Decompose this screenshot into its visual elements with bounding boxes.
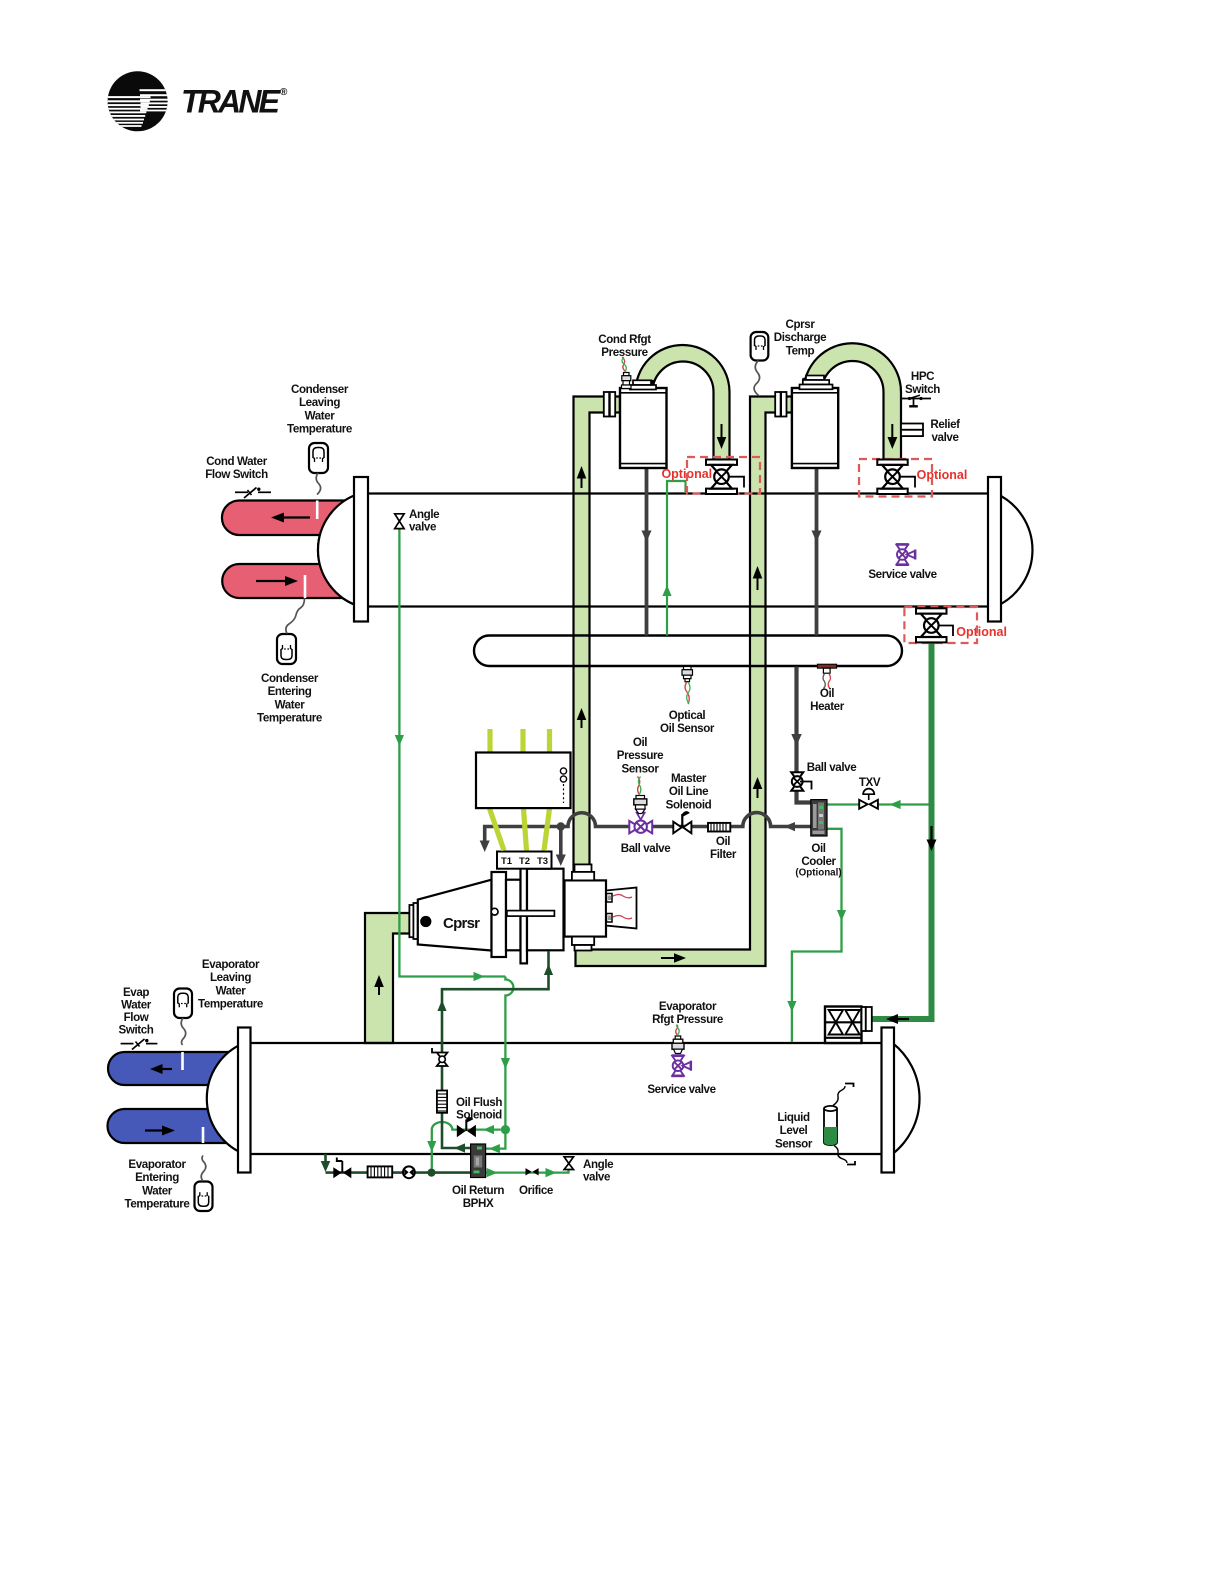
evaporator left tubesheet flange (238, 1028, 251, 1173)
svg-text:T2: T2 (519, 856, 530, 867)
svg-text:MasterOil LineSolenoid: MasterOil LineSolenoid (666, 772, 712, 811)
valve: expansion valve assembly on evaporator (825, 1007, 872, 1044)
wire: green line hop over oil return and down to evaporator (501, 977, 514, 1126)
Trane logo circle (104, 71, 170, 131)
condenser shell fill (318, 494, 1032, 607)
wire: separator 2 oil drain to sump (812, 468, 822, 636)
valve: orifice (526, 1168, 539, 1175)
risers re-crossing sump (green fill over sump, lines over) (574, 636, 766, 667)
svg-text:Cond WaterFlow Switch: Cond WaterFlow Switch (205, 455, 268, 481)
evaporator water pipe leaving (blue, arrow left) (108, 1052, 245, 1085)
sensor: evap entering water temperature icon (flipped) (195, 1156, 213, 1212)
oil separator 2 top plates (800, 376, 833, 390)
svg-text:Ball valve: Ball valve (807, 761, 857, 774)
compressor main body (527, 869, 564, 951)
evaporator shell fill (251, 1043, 920, 1154)
compressor terminal box T1 T2 T3 (497, 852, 552, 869)
switch: HPC pressure switch (901, 395, 931, 406)
svg-text:EvaporatorRfgt Pressure: EvaporatorRfgt Pressure (652, 1000, 724, 1026)
filter: oil filter (708, 823, 730, 832)
filter: strainer on oil return line (368, 1166, 393, 1177)
sensor: condenser leaving water temperature icon (309, 443, 328, 495)
compressor section 2 (506, 880, 521, 951)
arrow up in riser 2 (upper) (753, 566, 763, 590)
compressor cone dot (420, 916, 431, 927)
wire: green dot down into BPHX top (486, 1134, 506, 1153)
svg-text:Service valve: Service valve (647, 1083, 716, 1096)
svg-text:Optional: Optional (956, 625, 1007, 639)
evaporator left waterbox dome (207, 1043, 244, 1154)
svg-text:TXV: TXV (859, 776, 881, 789)
wire: TXV liquid feed line (827, 800, 929, 809)
svg-text:Cond RfgtPressure: Cond RfgtPressure (598, 333, 651, 359)
pipe: oil separator 2 discharge loop to butterfly valve (804, 343, 902, 459)
valve: condenser service valve (purple) (896, 544, 916, 565)
svg-text:Orifice: Orifice (519, 1184, 554, 1197)
Trane logo wordmark (181, 84, 288, 120)
svg-text:EvapWaterFlowSwitch: EvapWaterFlowSwitch (119, 986, 154, 1037)
valve: master oil line solenoid (673, 811, 691, 833)
starter/drive box (476, 753, 571, 809)
valve: evaporator service valve (purple) (672, 1056, 692, 1077)
valve: oil flush solenoid (457, 1117, 476, 1137)
node: oil line junction dot (557, 822, 565, 830)
sensor: liquid level sensor (824, 1084, 855, 1165)
svg-text:Optional: Optional (917, 468, 968, 482)
svg-text:®: ® (280, 87, 288, 98)
arrow down in separator 2 downcomer (888, 424, 898, 449)
svg-text:Ball valve: Ball valve (621, 842, 671, 855)
switch: cond water flow switch symbol (235, 488, 271, 499)
svg-text:LiquidLevelSensor: LiquidLevelSensor (775, 1111, 813, 1150)
oil separator 1 top plates (630, 380, 656, 389)
sensor: discharge temperature probes on compressor (606, 888, 637, 929)
oil sump tank (474, 636, 902, 667)
svg-text:Oil FlushSolenoid: Oil FlushSolenoid (456, 1096, 502, 1122)
wire: oil branch down into compressor housing (556, 827, 566, 867)
arrow up in riser 2 (753, 777, 763, 798)
svg-text:T1: T1 (501, 856, 513, 867)
butterfly valve 3 (optional, condenser liquid outlet) (916, 608, 953, 642)
sensor: condenser entering water temperature icon (flipped) (277, 598, 305, 664)
oil separator 1 vessel (620, 388, 667, 468)
heater: oil heater under sump (817, 664, 836, 688)
valve: TXV with diaphragm (859, 789, 878, 809)
sensor: cprsr discharge temp icon (751, 332, 769, 396)
sensor: evap leaving water temperature icon (174, 989, 192, 1046)
valve: sump outlet ball valve (black) (791, 772, 811, 791)
wire: main oil line from cooler to compressor with hops (dark gray) (480, 813, 811, 852)
compressor tall plate (521, 865, 528, 963)
heat exchanger: oil cooler (811, 800, 827, 836)
svg-text:T3: T3 (537, 856, 548, 867)
node: green junction dot at oil flush tee (501, 1125, 510, 1134)
svg-text:TRANE: TRANE (181, 84, 282, 120)
evaporator water pipe entering (blue, arrow right) (108, 1109, 246, 1143)
compressor shaft bar (491, 908, 554, 916)
pipe: discharge riser 1 to oil separator 1 (574, 397, 621, 873)
svg-text:(Optional): (Optional) (795, 868, 841, 879)
compressor discharge top flange (572, 864, 594, 880)
butterfly valve 1 (optional, separator 1 to condenser) (706, 460, 744, 495)
compressor motor cone (418, 880, 492, 951)
separator 2 inlet flange (775, 392, 786, 417)
separator 1 inlet flange (604, 392, 615, 417)
condenser water pipe entering (pink, arrow right) (222, 564, 356, 598)
valve: evap drain valve with handle (bottom left) (333, 1158, 351, 1179)
svg-text:Anglevalve: Anglevalve (583, 1158, 614, 1184)
condenser shell outline (368, 494, 988, 607)
arrow up in suction line (374, 975, 384, 995)
sensor: oil pressure sensor fitting (634, 777, 647, 814)
wire: BPHX oil outlet up to compressor (dark green) (437, 952, 553, 1153)
relief valve (901, 424, 923, 437)
condenser right tubesheet flange (988, 477, 1001, 622)
condenser left waterbox dome (318, 494, 360, 607)
wire: oil flush line from dot through solenoid with hop (427, 1122, 501, 1169)
wire: oil supply line from sump to ball valve and oil cooler (dark gray) (791, 667, 811, 803)
compressor suction end rings (409, 903, 417, 939)
condenser left tubesheet flange (354, 477, 368, 622)
svg-text:Reliefvalve: Reliefvalve (930, 418, 960, 444)
wire: oil return bottom line into BPHX (dark green) (326, 1171, 471, 1174)
switch: evap water flow switch symbol (121, 1039, 158, 1050)
wire: starter cables (yellow-green) (490, 729, 550, 851)
arrow up in riser 1 (lower) (577, 708, 587, 728)
valve: condenser angle valve symbol (395, 514, 404, 529)
valve: oil line ball valve (purple) (629, 813, 652, 834)
evaporator shell outline (251, 1043, 882, 1154)
svg-text:Cprsr: Cprsr (443, 915, 480, 932)
node: dark junction dot on oil return line (427, 1169, 435, 1177)
valve: check valve circle on oil return line (403, 1166, 415, 1178)
wire: BPHX outlet to orifice and angle valve (486, 1168, 569, 1177)
sensor: optical oil sensor fitting (682, 667, 693, 705)
pipe: evaporator suction line to compressor (365, 913, 410, 1043)
pipe: discharge riser 2 + horizontal discharge run from compressor (576, 397, 792, 967)
heat exchanger: oil return BPHX (471, 1144, 486, 1178)
wire: oil cooler refrigerant return to evaporator (787, 829, 846, 1042)
svg-text:Service valve: Service valve (868, 568, 937, 581)
pipe: oil separator 1 discharge loop to butterfly valve (636, 345, 730, 460)
oil separator 2 vessel (792, 388, 838, 468)
liquid line from condenser to expansion valve (thick green) (872, 643, 937, 1025)
compressor discharge bottom flange (572, 937, 594, 951)
condenser water pipe leaving (pink, arrow left) (222, 501, 356, 536)
optional dashed box 2 (859, 459, 932, 497)
compressor discharge housing (565, 880, 607, 936)
sensor: evaporator rfgt pressure fitting (672, 1025, 684, 1054)
valve: evap angle valve symbol (564, 1157, 573, 1170)
optional dashed box 1 (687, 457, 760, 494)
wire: evaporator oil drain stub (dark green) (321, 1154, 331, 1172)
filter: strainer sight glass on dark riser (437, 1091, 447, 1113)
wire: separator 1 oil drain to sump (642, 468, 652, 636)
valve: oil return shutoff on dark riser (432, 1048, 447, 1066)
wire: condenser angle valve line down (395, 529, 506, 981)
svg-text:Anglevalve: Anglevalve (409, 508, 440, 534)
butterfly valve 2 (optional, separator 2 to condenser) (877, 460, 915, 495)
evaporator right tubesheet flange (882, 1028, 895, 1173)
optional dashed box 3 (904, 607, 977, 643)
compressor flange 1 (492, 872, 507, 957)
arrow down in separator 1 downcomer (717, 424, 727, 449)
arrow up in riser 1 (upper) (577, 466, 587, 488)
wire: optional equalizer green line through condenser (662, 481, 685, 636)
sensor: cond rfgt pressure transducer fitting (622, 357, 632, 389)
arrow right in discharge run (661, 953, 686, 963)
